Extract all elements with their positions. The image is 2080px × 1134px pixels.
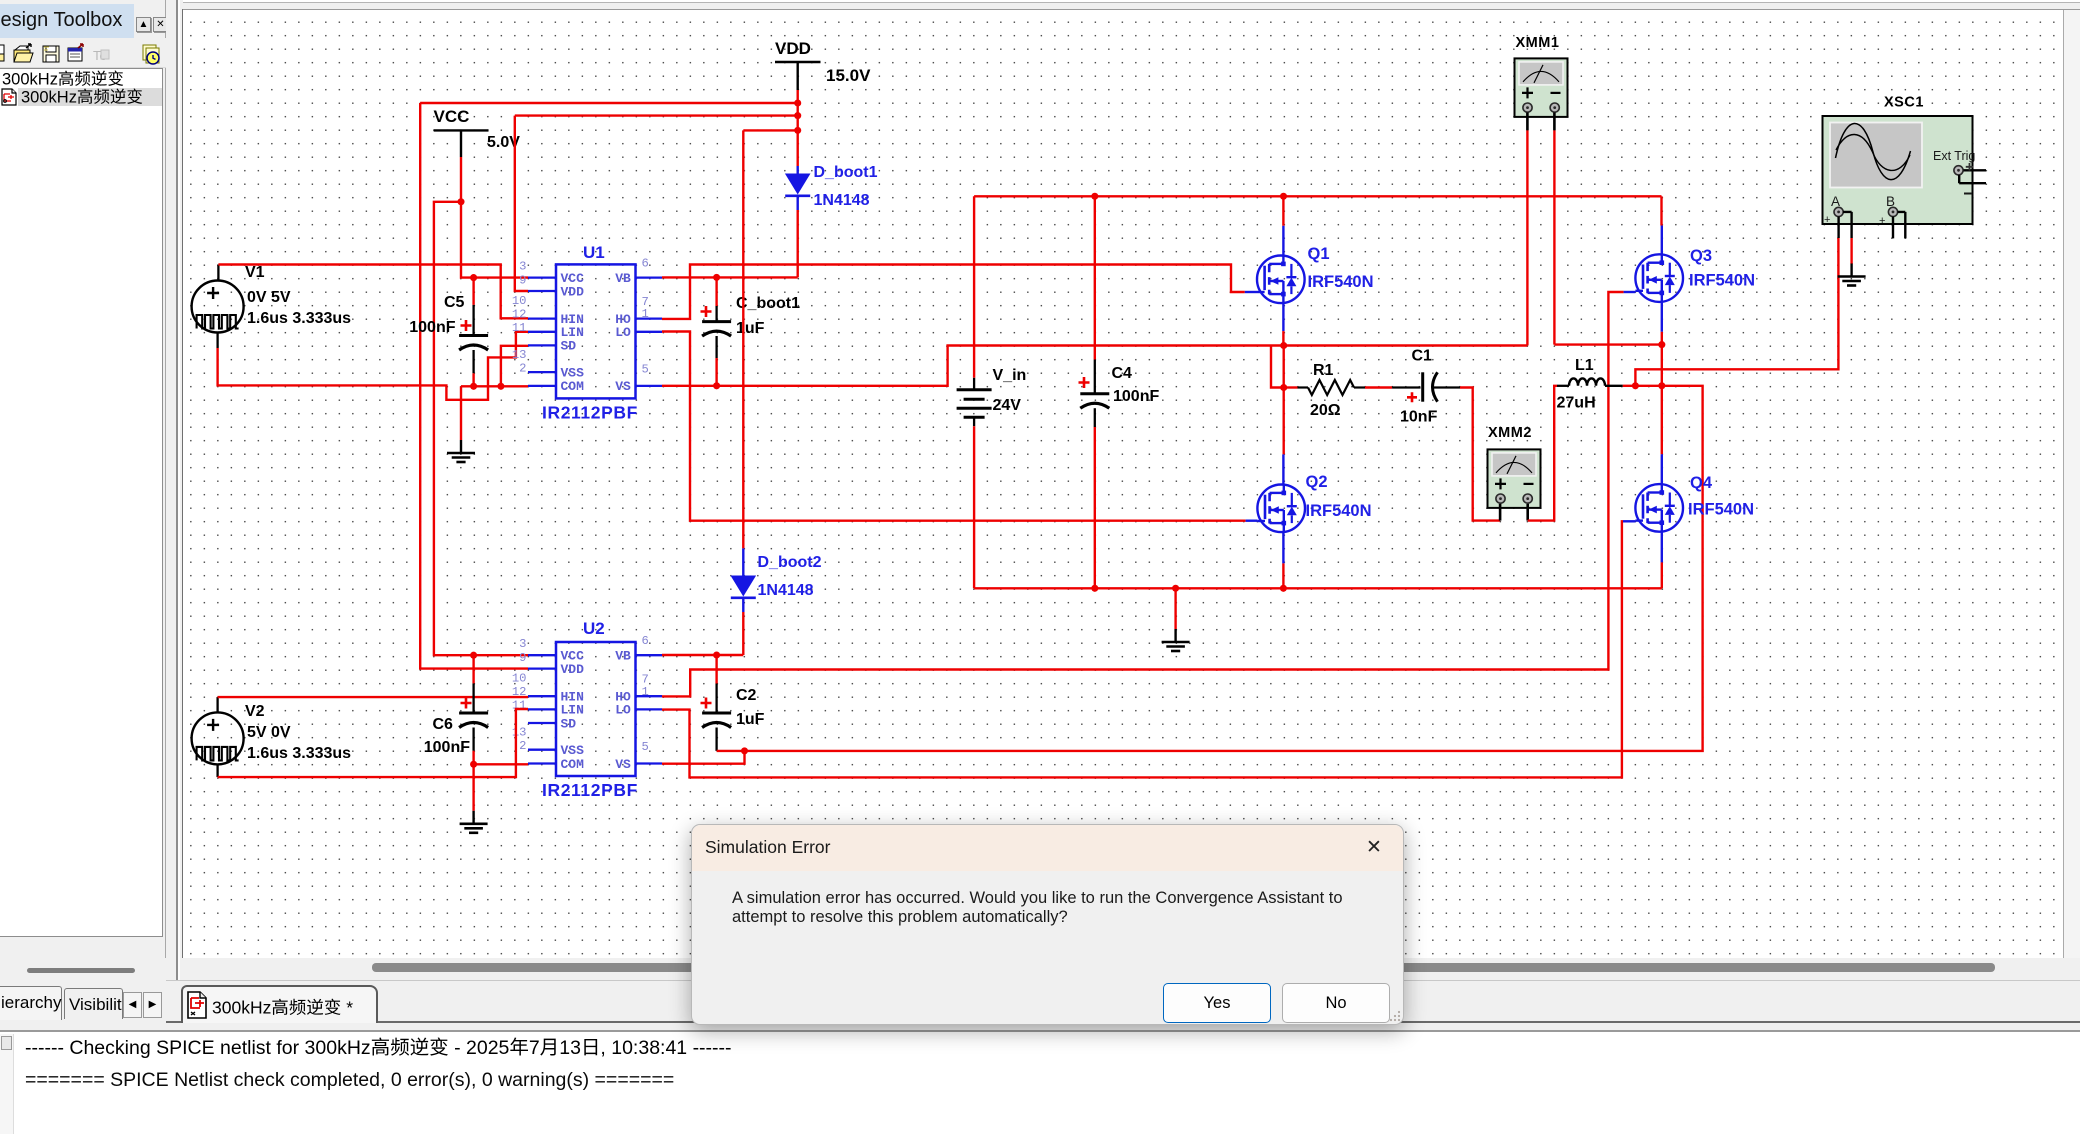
junction bottom rail C4- (1091, 585, 1098, 592)
wire VDD drop to U1 VDD (515, 116, 528, 291)
wire V2 minus to U2 LIN (218, 709, 528, 777)
op-amp U1 IR2112PBF (512, 243, 662, 423)
wire bottom rail (974, 587, 1662, 589)
svg-text:------ Checking SPICE netlist: ------ Checking SPICE netlist for 300kHz (25, 1037, 371, 1059)
wire XSC1 A- to ground (1850, 238, 1852, 264)
junction VB / C_boot1+ (713, 274, 720, 281)
junction SD on COM row (497, 383, 504, 390)
junction phase B / Q3 source (1658, 341, 1665, 348)
wire U2 VS to C2- (662, 751, 745, 764)
junction bottom rail Q2 source (1280, 585, 1287, 592)
wire phase B rail from XMM1- (1554, 343, 1661, 345)
svg-text:, 10:38:41 ------: , 10:38:41 ------ (600, 1037, 731, 1059)
icon new (cropped) (0, 45, 4, 61)
junction phase A rail / Q1 source (1280, 342, 1287, 349)
junction U1 VCC / C5+ (470, 274, 477, 281)
junction top rail C4 (1091, 193, 1098, 200)
junction VS / C_boot1- (713, 382, 720, 389)
svg-text:*: * (341, 998, 353, 1018)
wire L1 tap to scope A (1635, 238, 1838, 386)
inductor L1 27uH (1557, 357, 1636, 412)
wire V1 bottom stub (216, 333, 218, 349)
capacitor C2 1uF (701, 655, 765, 751)
diode D_boot2 1N4148 (731, 548, 822, 612)
wire VDD rail y130.4 (743, 129, 797, 131)
junction top rail Q1 (1280, 193, 1287, 200)
junction VCC split (457, 198, 464, 205)
wire VDD stem red (797, 90, 799, 166)
icon sheet properties (68, 44, 83, 61)
wire V1 to U1 HIN (218, 265, 528, 319)
junction Q3Q4 mid / L1 row (1658, 382, 1665, 389)
wire VCC stem (460, 157, 462, 202)
wire C2- east to Q3Q4 mid (745, 386, 1703, 751)
wire VDD rail top y103 (420, 102, 798, 104)
wire ground stub mid (1174, 588, 1176, 629)
wire D_boot1 cathode to VB row (797, 210, 799, 277)
wire VDD column to U2 VDD (420, 103, 528, 669)
wire V1 top stub (217, 265, 219, 281)
ground mid rail (1174, 629, 1176, 642)
oscilloscope XSC1 (1823, 95, 1987, 239)
junction R1 feed (1280, 384, 1287, 391)
tree schematic icon (2, 89, 16, 105)
ground U1 COM (460, 440, 462, 453)
capacitor C4 100nF (1079, 196, 1160, 588)
source V_in 24V battery (957, 196, 1027, 588)
icon save floppy (43, 46, 59, 62)
wire XMM1- to phase B rail (1553, 130, 1555, 344)
wire V2 bottom stub (216, 764, 218, 777)
junction C2- / VS riser (741, 747, 748, 754)
power VDD symbol 15.0V (775, 39, 871, 90)
wire COM to ground (460, 386, 462, 440)
icon open folder (14, 44, 33, 62)
wire U2 VB row (662, 654, 743, 656)
wire VCC down to U1 VCC row (461, 202, 528, 278)
wire L1 row to Q4 drain (1661, 386, 1663, 455)
wire top rail to Q3 drain (1660, 196, 1662, 225)
diode D_boot1 1N4148 (785, 164, 878, 210)
junction L1 / scope tap (1632, 382, 1639, 389)
wire U1 COM row (461, 385, 528, 387)
resistor R1 20Ω (1284, 362, 1365, 419)
source V2 pulse (192, 703, 352, 764)
wire U2 COM to ground (472, 764, 474, 811)
junction C6-/COM/ground (470, 761, 477, 768)
junction C5- on COM row (470, 383, 477, 390)
icon Te disabled (93, 48, 109, 63)
transistor Q4 IRF540N (1623, 454, 1754, 588)
wire XMM2- to L1 (1528, 386, 1557, 521)
wire C1 to XMM2+ (1460, 388, 1500, 521)
svg-text:13: 13 (559, 1037, 581, 1059)
wire rail jog to R1 row (1271, 346, 1284, 388)
ground U2 COM (472, 811, 474, 824)
wire Q3 source to L1 row (1661, 345, 1663, 386)
ground XSC1 (1850, 264, 1852, 277)
wire VDD rail to D_boot2 (742, 130, 744, 548)
wire V2 top stub (216, 697, 218, 712)
transistor Q1 IRF540N (1245, 196, 1374, 345)
wire R1 to C1 (1365, 386, 1392, 388)
wire L1 to Q3Q4 mid (1635, 385, 1661, 387)
wire V2 to U2 HIN (218, 696, 528, 698)
wire U1 HO to Q1 gate (662, 265, 1245, 319)
source V1 pulse (192, 264, 352, 333)
wire U2 LO to Q4 gate (662, 521, 1623, 777)
wire Q2 drain (1282, 388, 1284, 455)
wire Q1Q2 mid to R1 row (1282, 346, 1284, 388)
wire U1 VS row (662, 346, 1527, 386)
svg-text:7: 7 (529, 1037, 540, 1059)
wire D_boot2 cathode to U2 VB (742, 612, 744, 655)
sheet tab icon (188, 992, 206, 1018)
svg-text:- 2025: - 2025 (449, 1037, 510, 1059)
wire U2 COM row (474, 763, 528, 765)
svg-text:300kHz: 300kHz (2, 71, 58, 89)
wire VDD rail y115.6 (515, 114, 798, 116)
multimeter XMM1 (1515, 35, 1568, 130)
junction VB2 / C2+ (713, 651, 720, 658)
junction bottom rail ground (1172, 585, 1179, 592)
transistor Q3 IRF540N (1624, 226, 1755, 345)
capacitor C_boot1 1uF (701, 277, 801, 385)
svg-text:300kHz: 300kHz (21, 89, 77, 107)
icon folder stack clock (143, 45, 159, 64)
capacitor C6 100nF (424, 655, 488, 764)
junction U2 VCC / C6+ (470, 652, 477, 659)
wire U2 HO to Q3 gate (662, 292, 1624, 696)
wire U1 LO to Q2 gate (662, 332, 1246, 521)
wire VCC to U2 column (434, 202, 528, 655)
transistor Q2 IRF540N (1246, 473, 1372, 588)
multimeter XMM2 (1488, 425, 1541, 521)
capacitor C1 10nF (1392, 348, 1460, 426)
wire V1 minus to U1 LIN (218, 332, 528, 400)
wire U1 VB row (662, 276, 798, 278)
wire top rail VDD to drains (974, 195, 1661, 197)
capacitor C5 100nF (409, 278, 488, 387)
wire XMM1+ from phase A rail (1526, 130, 1528, 345)
op-amp U2 IR2112PBF (512, 619, 662, 800)
svg-text:300kHz: 300kHz (212, 998, 271, 1018)
wire U1 SD to COM (501, 346, 528, 387)
power VCC symbol 5.0V (434, 107, 521, 157)
junction VDD rail dots (794, 99, 801, 106)
